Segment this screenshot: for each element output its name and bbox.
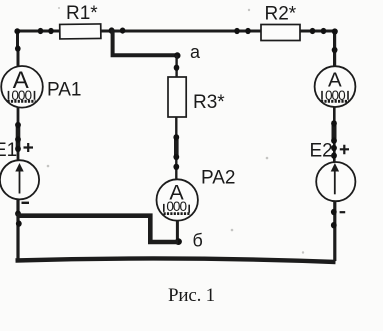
op: ammeter PA2: [157, 179, 198, 220]
wire thick segment below R3: [174, 137, 179, 158]
ammeter PA1: [1, 66, 43, 108]
node top-right corner junction: [332, 28, 338, 34]
label E1 plus sign: [24, 143, 34, 152]
wire bottom rail: [16, 258, 336, 262]
wire below E1 to bottom rail: [16, 199, 19, 259]
svg-text:E1: E1: [0, 140, 17, 161]
node dot right of R1 second: [120, 28, 126, 34]
node dot at step wire junction: [16, 220, 22, 226]
svg-text:PA2: PA2: [201, 168, 236, 189]
node dot right of R2 first: [310, 28, 316, 34]
wire right vertical top (corner to ammeter): [333, 30, 336, 67]
node dot above R3: [174, 65, 180, 71]
node dot left column 3 (E1 plus terminal): [15, 146, 21, 152]
wire branch from R1 junction down and right to node a: [113, 30, 178, 56]
wire PA2 to node b: [176, 220, 179, 242]
node dot below R3 first: [173, 134, 179, 140]
node dot below E1: [15, 210, 21, 216]
scan noise specks: [47, 7, 304, 254]
node dot below top-right corner: [332, 47, 338, 53]
wire thick segment right column: [332, 123, 337, 141]
svg-text:Рис. 1: Рис. 1: [168, 285, 215, 306]
svg-text:R1*: R1*: [66, 3, 98, 24]
node top-left corner junction: [14, 28, 20, 34]
source E1: [0, 160, 39, 199]
label E2 minus sign: [340, 211, 346, 213]
node dot below E2: [331, 209, 337, 215]
node b junction dot: [175, 238, 182, 245]
wire left vertical PA1 to E1: [17, 107, 20, 161]
wire node a to R3: [175, 55, 177, 77]
svg-text:PA1: PA1: [47, 79, 82, 100]
wire below E2 to bottom rail: [333, 201, 336, 261]
node dot right of R1 (branch junction): [109, 27, 115, 33]
wire right vertical ammeter to E2: [333, 107, 336, 162]
node dot right column 1: [331, 120, 337, 126]
svg-text:E2: E2: [310, 140, 333, 161]
svg-text:R3*: R3*: [193, 92, 225, 113]
wire left vertical top (corner to PA1): [16, 30, 20, 67]
node a junction dot: [174, 52, 180, 59]
label E2 plus sign: [340, 145, 349, 155]
svg-text:R2*: R2*: [265, 4, 297, 25]
node dot left of R2 first: [234, 28, 240, 34]
wire thick segment left column: [16, 125, 21, 150]
wire R3 to PA2: [175, 117, 177, 180]
node dot below top-left corner: [15, 45, 21, 51]
resistor R2: [261, 25, 300, 41]
resistor R1: [60, 24, 101, 39]
wire top rail right segment: [300, 30, 336, 33]
node dot below R3 second: [173, 154, 179, 160]
svg-text:000: 000: [166, 199, 187, 214]
node dot left of R2 second: [245, 28, 251, 34]
node dot right column 4 (E2 plus terminal): [331, 152, 337, 158]
label E1 minus sign: [22, 202, 30, 204]
source E2: [316, 162, 355, 201]
node dot below E2 second: [331, 222, 337, 228]
node dot on top rail left 1: [38, 28, 44, 34]
wire top rail middle segment: [102, 30, 262, 33]
node dot on top rail left 2: [48, 28, 54, 34]
node dot above PA2: [173, 164, 179, 170]
node dot left column 2: [15, 136, 21, 142]
wire top rail left segment: [16, 30, 60, 33]
svg-text:a: a: [190, 42, 201, 62]
wire step from E1 to node b: [17, 216, 179, 242]
ammeter PA3 (right, unlabeled): [315, 66, 356, 107]
node dot right column 3: [331, 145, 337, 151]
node dot right of R2 second: [321, 28, 327, 34]
svg-text:б: б: [193, 231, 203, 251]
resistor R3: [168, 77, 186, 117]
node dot left column 1: [15, 122, 21, 128]
node dot right column 2: [331, 137, 337, 143]
